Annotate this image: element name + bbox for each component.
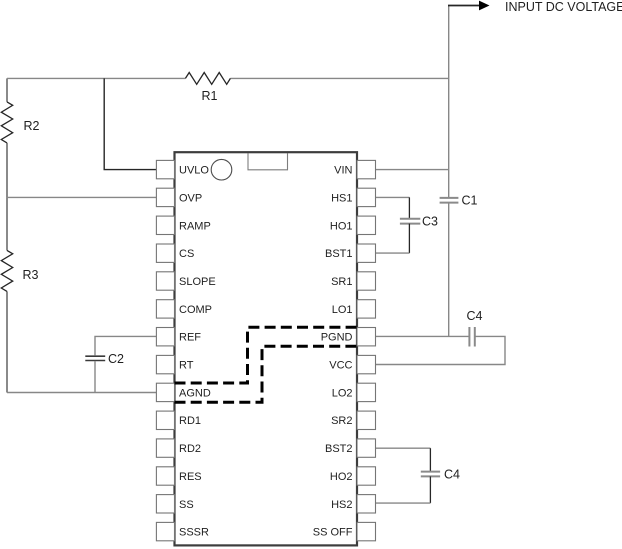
- pin HO2: [330, 467, 376, 485]
- svg-text:AGND: AGND: [179, 387, 211, 399]
- wire: HS2 to C4: [376, 502, 431, 504]
- svg-text:C4: C4: [467, 309, 483, 323]
- wire: OVP: [7, 196, 156, 198]
- wire: VIN to input rail: [376, 169, 449, 171]
- svg-text:R3: R3: [23, 268, 39, 282]
- wire: BST1 to C3: [376, 252, 410, 254]
- capacitor C4 (BST2-HS2): [421, 448, 460, 503]
- pin HO1: [330, 216, 376, 234]
- pin COMP: [156, 300, 212, 318]
- IC border: [175, 152, 358, 545]
- pin SR2: [331, 411, 375, 429]
- wire: PGND to C4: [376, 335, 470, 337]
- svg-text:C1: C1: [462, 194, 478, 208]
- svg-text:INPUT DC VOLTAGE: INPUT DC VOLTAGE: [505, 0, 622, 14]
- capacitor C2: [85, 352, 124, 366]
- svg-text:RES: RES: [179, 471, 202, 483]
- pin SS: [156, 495, 193, 513]
- wire: input vertical rail: [448, 6, 450, 337]
- op-amp U1 IC body: [175, 152, 358, 545]
- svg-text:R2: R2: [24, 119, 40, 133]
- wire: UVLO feed from top rail: [104, 78, 156, 169]
- wire: C4 to VCC: [376, 336, 506, 364]
- svg-text:C3: C3: [422, 215, 438, 229]
- svg-text:HS2: HS2: [331, 499, 352, 511]
- pin-1 circle marker: [211, 159, 232, 180]
- pin VCC: [329, 355, 375, 373]
- IC pin-1 notch rectangle: [248, 153, 288, 170]
- svg-text:LO1: LO1: [332, 304, 353, 316]
- pin SR1: [331, 272, 375, 290]
- svg-text:RD1: RD1: [179, 415, 201, 427]
- svg-text:COMP: COMP: [179, 304, 212, 316]
- wire: REF to C2: [95, 336, 156, 355]
- capacitor C3: [400, 197, 438, 253]
- pin PGND: [321, 328, 376, 346]
- pin RT: [156, 355, 193, 373]
- dashed ground return path (AGND to PGND) inner edge: [175, 346, 358, 402]
- svg-text:R1: R1: [202, 89, 218, 103]
- capacitor C4 (PGND-VCC): [467, 309, 483, 347]
- svg-text:OVP: OVP: [179, 192, 202, 204]
- svg-text:VCC: VCC: [329, 360, 352, 372]
- svg-text:RD2: RD2: [179, 443, 201, 455]
- capacitor C1: [440, 194, 478, 208]
- svg-text:SR2: SR2: [331, 415, 352, 427]
- svg-text:HO2: HO2: [330, 471, 353, 483]
- svg-text:PGND: PGND: [321, 332, 353, 344]
- wire: OVP node to R3: [6, 197, 8, 250]
- pin CS: [156, 244, 194, 262]
- svg-text:SR1: SR1: [331, 276, 352, 288]
- pin UVLO: [156, 160, 209, 178]
- wire: input DC top rail: [7, 78, 449, 102]
- pin VIN: [334, 160, 375, 178]
- svg-text:RT: RT: [179, 360, 194, 372]
- wire: AGND: [7, 392, 156, 394]
- resistor R3: [1, 250, 38, 291]
- wire: C2 to AGND net: [94, 361, 96, 393]
- dashed ground return path (AGND to PGND) outer edge: [175, 327, 358, 383]
- pin HS2: [331, 495, 375, 513]
- svg-text:SSSR: SSSR: [179, 527, 209, 539]
- pin LO1: [332, 300, 376, 318]
- pin HS1: [331, 188, 375, 206]
- svg-text:BST2: BST2: [325, 443, 353, 455]
- pin BST2: [325, 439, 376, 457]
- svg-text:SS: SS: [179, 499, 194, 511]
- svg-text:UVLO: UVLO: [179, 165, 209, 177]
- pin REF: [156, 328, 201, 346]
- pin SSSR: [156, 522, 209, 540]
- pin RES: [156, 467, 201, 485]
- pin SS OFF: [313, 522, 376, 540]
- wire: arrow stub to INPUT DC VOLTAGE: [448, 5, 480, 7]
- wire: left rail R3 to AGND: [6, 291, 8, 392]
- resistor R1: [185, 73, 230, 104]
- pin RAMP: [156, 216, 210, 234]
- resistor R2: [1, 102, 39, 143]
- pin SLOPE: [156, 272, 215, 290]
- svg-text:BST1: BST1: [325, 248, 353, 260]
- wire: left rail R2 to OVP node: [6, 143, 8, 198]
- pin RD1: [156, 411, 201, 429]
- pin LO2: [332, 383, 376, 401]
- svg-text:REF: REF: [179, 332, 201, 344]
- arrowhead INPUT DC VOLTAGE: [479, 1, 490, 11]
- svg-text:VIN: VIN: [334, 165, 352, 177]
- svg-text:C2: C2: [108, 352, 124, 366]
- pin AGND: [156, 383, 210, 401]
- pin BST1: [325, 244, 376, 262]
- svg-text:HO1: HO1: [330, 220, 353, 232]
- wire: HS1 to C3: [376, 196, 410, 198]
- svg-text:RAMP: RAMP: [179, 220, 211, 232]
- pin RD2: [156, 439, 201, 457]
- pin OVP: [156, 188, 202, 206]
- svg-text:SS OFF: SS OFF: [313, 527, 353, 539]
- svg-text:CS: CS: [179, 248, 194, 260]
- svg-text:SLOPE: SLOPE: [179, 276, 216, 288]
- svg-text:HS1: HS1: [331, 192, 352, 204]
- svg-text:LO2: LO2: [332, 387, 353, 399]
- wire: BST2 to C4: [376, 447, 431, 449]
- svg-text:C4: C4: [444, 468, 460, 482]
